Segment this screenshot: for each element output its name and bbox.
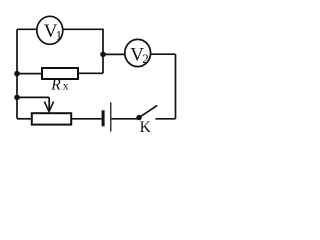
wire from Rx right to middle vertical — [78, 72, 103, 74]
node junction dot A on left rail (to Rx) — [14, 71, 20, 77]
battery negative plate (short thick) — [102, 110, 105, 126]
wire rheostat right to battery — [71, 118, 101, 120]
wire from V2 right to right rail — [151, 53, 176, 55]
svg-text:K: K — [140, 119, 152, 136]
rheostat body — [32, 113, 71, 124]
wire switch contact stub to right corner — [155, 118, 175, 120]
wire middle vertical (V1/V2 junction down to Rx) — [102, 29, 104, 74]
svg-text:x: x — [63, 81, 69, 93]
wire right vertical rail — [175, 54, 177, 119]
wire top from V1 right to middle vertical — [63, 28, 103, 30]
switch pivot dot — [136, 115, 141, 120]
voltmeter V1 — [37, 16, 63, 44]
node junction dot on middle vertical (to V2) — [100, 52, 106, 58]
wire top-left from V1 to left rail — [17, 28, 37, 30]
svg-text:R: R — [50, 77, 61, 94]
wire left vertical rail — [16, 29, 18, 118]
wire bottom rail left (corner to rheostat) — [17, 118, 32, 120]
wire from node to V2 left — [103, 53, 125, 55]
svg-text:1: 1 — [56, 28, 63, 43]
switch lever K — [139, 105, 157, 117]
svg-text:2: 2 — [142, 51, 149, 66]
node junction dot B on left rail (to slider) — [14, 95, 20, 101]
resistor Rx body — [42, 68, 78, 79]
voltmeter V2 — [125, 39, 151, 66]
wire from left rail to Rx — [17, 73, 42, 75]
wire slider arm horizontal from left rail — [17, 96, 49, 98]
arrowhead of rheostat slider — [44, 102, 53, 112]
wire battery to switch pivot — [112, 118, 140, 120]
battery positive plate (long thin) — [110, 102, 112, 131]
wire slider arm vertical shaft — [48, 97, 50, 110]
